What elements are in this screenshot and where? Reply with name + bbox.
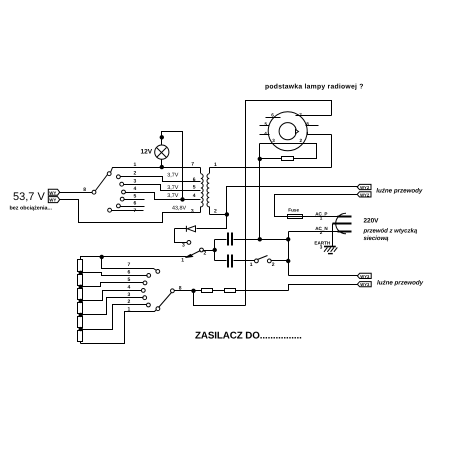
resistor R9 xyxy=(202,289,213,293)
svg-text:7: 7 xyxy=(128,262,131,268)
rotary switch S4 arm xyxy=(159,293,172,308)
rotary S1 contact 2 xyxy=(117,175,121,179)
junction dot chain j4 xyxy=(79,313,82,316)
resistor R10 xyxy=(225,289,236,293)
tube socket box and B+ rail xyxy=(246,101,332,306)
svg-text:220V: 220V xyxy=(364,218,380,225)
socket pin 8 tick xyxy=(306,125,319,127)
transformer T1 primary winding (right) xyxy=(207,168,210,215)
tube socket center key circle xyxy=(279,123,298,140)
svg-text:1: 1 xyxy=(181,257,184,263)
svg-text:5: 5 xyxy=(134,194,137,200)
svg-text:3: 3 xyxy=(320,244,323,249)
svg-text:4: 4 xyxy=(128,284,131,290)
wire S2 contact 2 to cap node xyxy=(203,250,215,252)
svg-text:1: 1 xyxy=(250,262,253,268)
svg-text:8: 8 xyxy=(83,187,86,193)
switch S2 contact 2 xyxy=(200,248,204,252)
diode D1 xyxy=(175,226,196,232)
rotary S1 contact 3 xyxy=(120,182,124,186)
socket pin 1 tick xyxy=(307,134,332,136)
svg-text:sieciową: sieciową xyxy=(364,235,390,242)
wire stub S1-7 xyxy=(112,210,144,212)
connector tag WY2 bottom xyxy=(357,192,371,198)
svg-text:2: 2 xyxy=(300,138,303,143)
svg-text:6: 6 xyxy=(193,177,196,183)
socket pin 7 tick xyxy=(296,115,332,117)
wire tag WY2 bottom to fuse xyxy=(275,195,358,217)
rotary S1 contact 6 xyxy=(117,204,121,208)
wire tap j3 to S4 contact 4 xyxy=(81,291,142,301)
mains plug P1 xyxy=(333,213,352,234)
svg-text:5: 5 xyxy=(193,185,196,191)
svg-text:przewód z wtyczką: przewód z wtyczką xyxy=(363,227,418,234)
svg-text:2: 2 xyxy=(214,209,217,215)
socket heater loop rectangle xyxy=(260,144,317,159)
junction dot socket drop on C1 wire xyxy=(258,238,261,241)
svg-text:7: 7 xyxy=(191,161,194,167)
tube socket outer circle xyxy=(268,112,307,151)
fuse F1 xyxy=(288,215,303,219)
junction dot B+ on divider wire xyxy=(192,289,195,292)
rotary S4 contact 1 xyxy=(156,307,160,311)
wire S3 to AC_N node xyxy=(271,260,289,262)
svg-text:WY2: WY2 xyxy=(360,192,370,197)
svg-text:6: 6 xyxy=(128,269,131,275)
junction dot chain top xyxy=(100,255,103,258)
wire tag WY top to rotary pivot xyxy=(60,192,93,194)
connector tag WY2 top xyxy=(357,184,371,190)
wire S1-4 to transformer pin 4 xyxy=(126,193,201,200)
svg-text:1: 1 xyxy=(320,216,323,221)
junction dot chain j2 xyxy=(79,285,82,288)
transformer T1 secondary winding (left) xyxy=(201,168,204,213)
rotary S1 contact 1 xyxy=(107,172,111,176)
svg-text:8: 8 xyxy=(179,285,182,291)
switch S3 arm xyxy=(258,256,268,260)
junction dot lamp bottom on wire 1 xyxy=(160,165,163,168)
svg-text:3: 3 xyxy=(128,292,131,298)
connector tag WY (output +, left top) xyxy=(48,189,59,195)
svg-text:3,7V: 3,7V xyxy=(167,185,178,191)
svg-text:bez obciążenia...: bez obciążenia... xyxy=(10,206,53,212)
wire tap j2 to S4 contact 5 xyxy=(81,283,144,287)
divider chain connecting line xyxy=(80,272,82,344)
divider resistor R1 xyxy=(78,260,83,272)
wire earth pin down xyxy=(332,224,334,247)
svg-text:WY: WY xyxy=(49,198,56,203)
ground symbol xyxy=(324,247,337,254)
svg-text:2: 2 xyxy=(134,171,137,177)
wire S1-1 to transformer pin 7 xyxy=(111,168,201,173)
resistor R8 (socket loop) xyxy=(282,157,294,161)
rotary switch S1 pivot contact xyxy=(92,190,96,194)
svg-text:1: 1 xyxy=(134,162,137,168)
svg-text:Fuse: Fuse xyxy=(288,207,299,212)
wire stub S1-6 xyxy=(121,206,145,208)
svg-text:WY3: WY3 xyxy=(360,274,370,279)
wire AC_N to plug xyxy=(289,231,338,233)
wire B+ rail bottom loop xyxy=(194,291,246,306)
junction dot AC_N node on C1 wire xyxy=(287,238,290,241)
socket pin 5 tick xyxy=(260,125,270,127)
svg-text:2: 2 xyxy=(204,251,207,257)
svg-text:4: 4 xyxy=(134,186,137,192)
wire to tag WY3 top xyxy=(289,275,358,277)
rotary S1 contact 7 xyxy=(108,208,112,212)
wire S1-2 to transformer pin 6 xyxy=(121,177,201,182)
wire pin 2 node down to diode xyxy=(197,215,227,229)
switch S2 arm with arrow xyxy=(186,251,201,258)
dot on lamp top wire xyxy=(160,136,163,139)
svg-text:3: 3 xyxy=(191,208,194,214)
lamp L1 12V bulb xyxy=(155,145,169,159)
svg-text:3: 3 xyxy=(134,178,137,184)
wire tap j1 to S4 contact 6 xyxy=(81,273,148,276)
svg-text:4: 4 xyxy=(264,131,267,136)
wire transformer pin 2 lead xyxy=(210,214,227,216)
rotary switch S4 pivot contact xyxy=(171,289,175,293)
svg-text:6: 6 xyxy=(271,113,274,118)
svg-text:EARTH: EARTH xyxy=(314,241,331,246)
svg-text:5: 5 xyxy=(265,121,268,126)
svg-text:WY3: WY3 xyxy=(360,282,370,287)
junction dot pin 2 node xyxy=(225,213,228,216)
svg-text:3,7V: 3,7V xyxy=(167,173,178,179)
svg-text:3: 3 xyxy=(272,138,275,143)
rotary S4 contact 6 xyxy=(147,274,151,278)
divider resistor R5 xyxy=(78,317,83,328)
rotary S1 contact 5 xyxy=(120,197,124,201)
switch S3 contact 1 xyxy=(255,259,259,263)
svg-text:12V: 12V xyxy=(141,148,153,155)
wire cap left vertical xyxy=(214,240,216,261)
svg-text:3,7V: 3,7V xyxy=(167,193,178,199)
socket pin 6 tick xyxy=(266,117,281,119)
wire chain bottom to S4 contact 1 xyxy=(81,310,157,344)
divider resistor R3 xyxy=(78,289,83,300)
svg-text:3: 3 xyxy=(182,242,185,248)
wire transformer pin 1 to tube socket xyxy=(210,167,332,169)
rotary S4 contact 7 xyxy=(156,270,160,274)
junction dot chain j5 xyxy=(79,327,82,330)
svg-text:luźne przewody: luźne przewody xyxy=(377,279,424,286)
svg-text:2: 2 xyxy=(272,262,275,268)
wire to tag WY3 bottom xyxy=(289,285,358,291)
wire lamp top loop to pin4 wire xyxy=(162,132,183,200)
junction dot S3 node xyxy=(287,259,290,262)
junction dot chain j1 xyxy=(79,271,82,274)
junction dot cap left node xyxy=(213,248,216,251)
rotary S4 contact 2 xyxy=(147,303,151,307)
svg-text:43,8V: 43,8V xyxy=(172,205,186,211)
connector tag WY3 bottom xyxy=(357,282,371,288)
socket pin 4 tick xyxy=(260,134,270,136)
rotary S1 contact 4 xyxy=(122,190,126,194)
rotary S4 contact 4 xyxy=(141,289,145,293)
capacitor C1 (top) xyxy=(215,233,289,246)
wire chain top to S2 contact 1 xyxy=(81,257,187,260)
svg-text:6: 6 xyxy=(134,201,137,207)
svg-text:WY: WY xyxy=(49,190,56,195)
wire socket loop down to C1 wire xyxy=(259,159,261,240)
svg-text:podstawka lampy radiowej ?: podstawka lampy radiowej ? xyxy=(265,84,364,91)
capacitor C2 (bottom) xyxy=(215,255,255,268)
wire tap j5 to S4 contact 2 xyxy=(81,305,147,330)
rotary switch S1 arm xyxy=(96,175,108,191)
divider resistor R2 xyxy=(78,275,83,286)
connector tag WY3 top xyxy=(357,273,371,279)
wire transformer pin 3 to output tag WY bottom xyxy=(60,200,201,223)
svg-text:4: 4 xyxy=(193,193,196,199)
svg-text:ZASILACZ DO................: ZASILACZ DO................ xyxy=(195,331,302,342)
wire stub S1-5 xyxy=(124,199,145,201)
wire S1-3 to transformer pin 5 xyxy=(124,185,201,191)
wire AC_N common vertical xyxy=(288,232,290,276)
junction dot lamp feed on pin4 wire xyxy=(181,198,184,201)
wire pin 2 node to tag WY2 top xyxy=(227,187,358,215)
wire fuse to plug AC_P xyxy=(303,216,338,218)
junction dot chain j3 xyxy=(79,299,82,302)
switch S3 contact 2 xyxy=(267,259,271,263)
svg-text:7: 7 xyxy=(299,112,302,117)
svg-text:2: 2 xyxy=(320,230,323,235)
svg-text:luźne przewody: luźne przewody xyxy=(376,188,423,195)
divider resistor R4 xyxy=(78,303,83,314)
svg-text:53,7 V: 53,7 V xyxy=(13,191,45,203)
wire lamp bottom to wire 1 xyxy=(161,160,163,168)
svg-text:WY2: WY2 xyxy=(360,185,370,190)
divider resistor R6 xyxy=(78,331,83,342)
connector tag WY (output -, left bottom) xyxy=(48,197,59,203)
svg-text:1: 1 xyxy=(306,131,309,136)
rotary S4 contact 5 xyxy=(143,281,147,285)
junction dot socket loop xyxy=(258,157,261,160)
svg-text:8: 8 xyxy=(306,122,309,127)
wire tap j4 to S4 contact 3 xyxy=(81,298,144,315)
wire chain top to S4 contact 7 xyxy=(102,257,157,271)
switch S2 contact 3 xyxy=(187,241,191,245)
rotary S4 contact 3 xyxy=(143,296,147,300)
wire diode to switch contact 3 xyxy=(175,229,188,243)
wire divider output with resistors xyxy=(175,290,289,292)
